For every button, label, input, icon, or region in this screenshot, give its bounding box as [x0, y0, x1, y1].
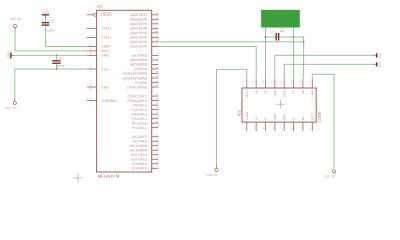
- IC1 right pin (TXD)PD1 (10): [152, 163, 159, 165]
- IC IC1 ATmega32 (MEGA32-M) box: [97, 10, 152, 172]
- svg-text:(TDO)PC4: (TDO)PC4: [132, 108, 148, 112]
- IC2 top pin 4A (15): [255, 79, 257, 88]
- svg-text:VCC 5V: VCC 5V: [324, 174, 336, 178]
- IC2 bottom pin 1A (2): [255, 122, 257, 131]
- svg-text:2A: 2A: [301, 117, 305, 121]
- svg-text:3A: 3A: [301, 90, 305, 94]
- svg-text:4Y: 4Y: [264, 90, 268, 94]
- IC1 right pin (ICP)PD6 (15): [152, 140, 159, 142]
- IC2 bottom pin 2Y (6): [293, 122, 295, 131]
- IC1 right pin (MISO)PB6 (2): [152, 59, 159, 61]
- IC1 right pin (ADC3)PA3 (34): [152, 32, 159, 34]
- pin GND (right edge upper): [374, 54, 376, 56]
- svg-text:RESET: RESET: [101, 13, 112, 17]
- svg-text:100nF: 100nF: [46, 28, 55, 32]
- wire IC2 VCC1 -> bottom VCC 5V: [217, 69, 247, 167]
- origin cross IC1: [74, 177, 83, 179]
- svg-text:GND: GND: [273, 89, 277, 97]
- IC1 right pin (T0/XCK)PB0 (40): [152, 86, 159, 88]
- svg-text:VCC 5V: VCC 5V: [206, 173, 218, 177]
- IC2 top pin GND (12): [283, 79, 285, 88]
- IC1 right pin (ADC7)PA7 (30): [152, 14, 159, 16]
- IC1 right pin (ADC4)PA4 (33): [152, 27, 159, 29]
- pin GND (right edge lower): [374, 63, 376, 65]
- IC1 right pin PC1(SDA) (20): [152, 122, 159, 124]
- svg-text:MEGA32-M: MEGA32-M: [98, 174, 120, 179]
- IC1 right pin (ADC5)PA5 (32): [152, 23, 159, 25]
- svg-text:C1: C1: [59, 56, 63, 60]
- svg-text:(TMS)PC3: (TMS)PC3: [132, 112, 148, 116]
- svg-text:(SS)PB4: (SS)PB4: [134, 67, 147, 71]
- IC1 left pin RESET (4): [87, 14, 94, 16]
- svg-text:GND: GND: [378, 53, 381, 59]
- svg-text:THERMAL: THERMAL: [101, 99, 117, 103]
- svg-text:GND: GND: [6, 51, 10, 59]
- IC1 right pin (TOSC2)PC7 (26): [152, 95, 159, 97]
- IC1 right pin (ADC2)PA2 (35): [152, 36, 159, 38]
- svg-text:VCC2: VCC2: [310, 112, 314, 120]
- IC1 right pin (AIN0/INT2)PB2 (42): [152, 77, 159, 79]
- svg-text:1A: 1A: [254, 117, 258, 121]
- svg-text:8M: 8M: [280, 29, 285, 33]
- IC2 bottom pin GND (4): [274, 122, 276, 131]
- svg-text:(ADC5)PA5: (ADC5)PA5: [130, 22, 148, 26]
- IC2 top pin GND (13): [274, 79, 276, 88]
- svg-text:100nF: 100nF: [57, 64, 66, 68]
- IC1 right pin (SCK)PB7 (3): [152, 54, 159, 56]
- IC1 left pin GND (39): [87, 86, 97, 88]
- junction PA1/3A vertical: [303, 41, 304, 42]
- IC1 right pin (T1)PB1 (41): [152, 82, 159, 84]
- IC1 left pin VCC (17): [87, 68, 97, 70]
- svg-text:GND: GND: [378, 62, 381, 68]
- svg-text:VCC1: VCC1: [245, 89, 249, 97]
- svg-text:(MISO)PB6: (MISO)PB6: [130, 58, 147, 62]
- svg-text:AVCC: AVCC: [101, 49, 111, 53]
- svg-text:(ADC4)PA4: (ADC4)PA4: [130, 27, 148, 31]
- svg-text:AREF: AREF: [101, 45, 110, 49]
- IC1 right pin (ADC6)PA6 (31): [152, 18, 159, 20]
- junction crystal left: [265, 36, 266, 37]
- capacitor C3: [42, 22, 50, 23]
- IC1 right pin (ADC0)PA0 (37): [152, 45, 159, 47]
- svg-text:IC2: IC2: [237, 109, 242, 116]
- svg-text:Q1: Q1: [270, 30, 274, 34]
- wire crystal right -> down to IC2 3A: [294, 37, 304, 79]
- IC1 right pin (SS)PB4 (44): [152, 68, 159, 70]
- IC1 left pin AVCC (27): [87, 50, 97, 52]
- svg-text:1Y: 1Y: [264, 117, 268, 121]
- motor/module block (green, top right): [261, 10, 300, 28]
- svg-text:GND: GND: [42, 11, 50, 15]
- svg-text:GND: GND: [282, 89, 286, 97]
- svg-text:3-4EN: 3-4EN: [310, 90, 314, 99]
- wire C3 -> AREF: [45, 26, 87, 47]
- svg-text:PC0(SCL): PC0(SCL): [132, 126, 147, 130]
- svg-text:(SCK)PB7: (SCK)PB7: [132, 54, 148, 58]
- IC1 left pin XTAL1 (8): [87, 36, 97, 38]
- svg-text:(MOSI)PB5: (MOSI)PB5: [130, 63, 147, 67]
- svg-text:XTAL2: XTAL2: [101, 27, 111, 31]
- IC IC2 L293D box: [242, 88, 316, 122]
- wire VCC5V -> VCC pin: [15, 69, 87, 99]
- supply pin VCC 5V (mid left): [13, 101, 16, 104]
- IC1 right pin (TOSC1)PC6 (25): [152, 100, 159, 102]
- wire GND -> IC1 GND pin: [14, 54, 87, 56]
- svg-text:VCC 5V: VCC 5V: [10, 17, 22, 21]
- svg-text:(TOSC2)PC7: (TOSC2)PC7: [127, 94, 147, 98]
- svg-text:(OC2)PD7: (OC2)PD7: [132, 135, 148, 139]
- svg-text:XTAL1: XTAL1: [101, 36, 111, 40]
- IC2 top pin 3Y (11): [293, 79, 295, 88]
- wire IC1 PA1 -> crystal-right net: [158, 41, 303, 43]
- svg-text:GND: GND: [273, 113, 277, 121]
- IC1 right pin (MOSI)PB5 (1): [152, 63, 159, 65]
- svg-text:(ADC7)PA7: (ADC7)PA7: [130, 13, 148, 17]
- svg-text:1-2EN: 1-2EN: [245, 112, 249, 121]
- svg-text:GND: GND: [101, 85, 109, 89]
- svg-text:(ADC0)PA0: (ADC0)PA0: [130, 45, 148, 49]
- svg-text:(T1)PB1: (T1)PB1: [135, 81, 148, 85]
- wire crystal row: [266, 36, 294, 38]
- crystal Q1 8MHz: [276, 33, 277, 41]
- supply pin VCC 5V (bottom right): [332, 170, 335, 173]
- origin cross IC2: [276, 103, 285, 105]
- IC1 left pin XTAL2 (7): [87, 27, 97, 29]
- IC2 top pin 3A (10): [302, 79, 304, 88]
- IC2 bottom pin 1-2EN (1): [246, 122, 248, 131]
- wire GND bar -> C3: [44, 18, 46, 23]
- IC1 left pin GND (28): [87, 54, 97, 56]
- wire module right pin down to IC2 3Y: [293, 28, 295, 80]
- wire IC1 PA0 -> IC2 4A: [158, 46, 256, 79]
- svg-text:(ADC2)PA2: (ADC2)PA2: [130, 36, 148, 40]
- junction on GND wire: [56, 55, 57, 56]
- IC2 bottom pin VCC2 (8): [311, 122, 313, 131]
- IC2 bottom pin 1Y (3): [265, 122, 267, 131]
- svg-text:PC1(SDA): PC1(SDA): [132, 121, 148, 125]
- svg-text:(ADC3)PA3: (ADC3)PA3: [130, 31, 148, 35]
- svg-text:(TCK)PC2: (TCK)PC2: [132, 117, 148, 121]
- svg-text:IC1: IC1: [97, 5, 103, 9]
- IC1 left pin THERMAL (45): [87, 100, 97, 102]
- IC1 right pin (TDI)PC5 (24): [152, 104, 159, 106]
- IC2 bottom pin 2A (7): [302, 122, 304, 131]
- IC2 top pin VCC1 (16): [246, 79, 248, 88]
- IC2 top pin 4Y (14): [265, 79, 267, 88]
- svg-text:(AIN1/OC0)PB3: (AIN1/OC0)PB3: [123, 72, 147, 76]
- svg-text:(TOSC1)PC6: (TOSC1)PC6: [127, 99, 147, 103]
- svg-text:(TXD)PD1: (TXD)PD1: [132, 162, 148, 166]
- svg-text:C3: C3: [50, 20, 54, 24]
- svg-text:GND: GND: [282, 113, 286, 121]
- IC1 right pin (RXD)PD0 (9): [152, 167, 159, 169]
- svg-text:(ADC1)PA1: (ADC1)PA1: [130, 40, 148, 44]
- IC1 right pin (OC2)PD7 (16): [152, 136, 159, 138]
- IC1 right pin (OC1A)PD5 (14): [152, 145, 159, 147]
- svg-text:GND: GND: [101, 54, 109, 58]
- IC1 right pin (INT0)PD2 (11): [152, 158, 159, 160]
- svg-text:L293D: L293D: [318, 111, 322, 122]
- svg-text:(OC1A)PD5: (OC1A)PD5: [129, 144, 147, 148]
- svg-text:VCC: VCC: [101, 67, 109, 71]
- svg-text:(INT1)PD3: (INT1)PD3: [131, 153, 147, 157]
- svg-text:(TDI)PC5: (TDI)PC5: [133, 103, 147, 107]
- wire IC2 GND(13) -> right edge pin: [275, 55, 374, 79]
- IC1 right pin (AIN1/OC0)PB3 (43): [152, 72, 159, 74]
- junction on VCC wire: [56, 68, 57, 69]
- svg-text:(ICP)PD6: (ICP)PD6: [133, 139, 148, 143]
- IC1 right pin (OC1B)PD4 (13): [152, 149, 159, 151]
- junction crystal right: [293, 36, 294, 37]
- capacitor C1 (100nF decoupling): [56, 55, 58, 60]
- wire IC2 3-4EN -> bottom right VCC 5V: [312, 74, 334, 168]
- svg-text:(INT0)PD2: (INT0)PD2: [131, 158, 147, 162]
- wire module left pin down to IC2 4Y (crystal tap): [265, 28, 267, 80]
- IC2 top pin 3-4EN (9): [311, 79, 313, 88]
- supply pin VCC 5V (bottom center): [216, 167, 218, 169]
- svg-text:3Y: 3Y: [292, 90, 296, 94]
- svg-text:4A: 4A: [254, 90, 258, 94]
- IC1 right pin (ADC1)PA1 (36): [152, 41, 159, 43]
- svg-text:(AIN0/INT2)PB2: (AIN0/INT2)PB2: [123, 76, 148, 80]
- IC1 right pin (INT1)PD3 (12): [152, 154, 159, 156]
- IC1 right pin PC0(SCL) (19): [152, 127, 159, 129]
- IC1 left pin AREF (20): [87, 45, 97, 47]
- module origin mark: [281, 26, 283, 28]
- svg-text:(ADC6)PA6: (ADC6)PA6: [130, 18, 148, 22]
- svg-text:(RXD)PD0: (RXD)PD0: [132, 167, 148, 171]
- IC2 bottom pin GND (5): [283, 122, 285, 131]
- IC1 right pin (TMS)PC3 (22): [152, 113, 159, 115]
- svg-text:(OC1B)PD4: (OC1B)PD4: [129, 149, 147, 153]
- wire IC2 GND(12) -> right edge pin: [284, 64, 374, 79]
- IC1 right pin (TCK)PC2 (21): [152, 118, 159, 120]
- IC1 right pin (TDO)PC4 (23): [152, 109, 159, 111]
- svg-text:VCC 5V: VCC 5V: [5, 106, 17, 110]
- wire VCC5V -> AVCC: [15, 30, 87, 51]
- svg-text:2Y: 2Y: [292, 117, 296, 121]
- svg-text:(T0/XCK)PB0: (T0/XCK)PB0: [127, 85, 148, 89]
